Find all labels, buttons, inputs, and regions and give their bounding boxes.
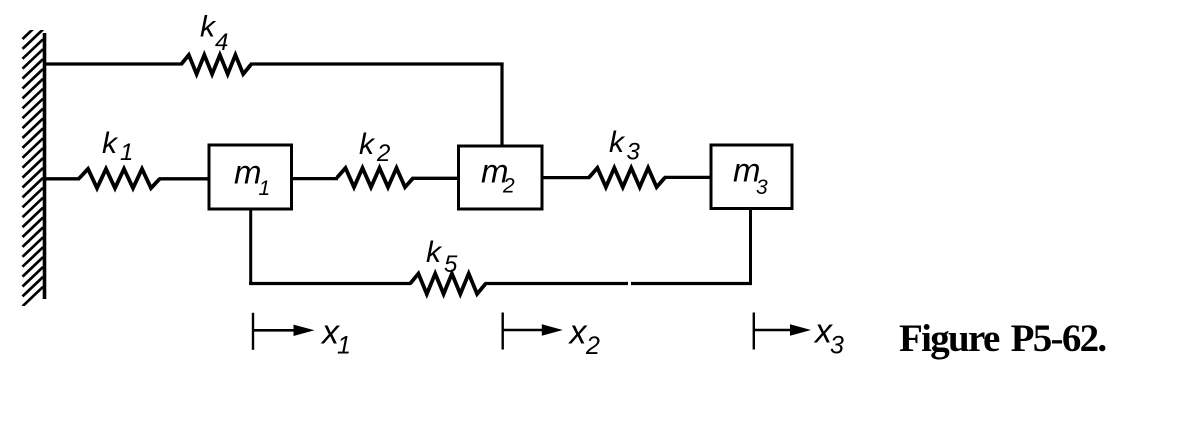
- svg-text:x: x: [568, 314, 588, 352]
- svg-text:4: 4: [215, 29, 228, 56]
- svg-text:2: 2: [585, 332, 600, 360]
- svg-text:Figure P5-62.: Figure P5-62.: [899, 317, 1106, 360]
- svg-text:2: 2: [502, 175, 515, 198]
- svg-text:3: 3: [627, 139, 641, 166]
- svg-text:k: k: [426, 236, 443, 269]
- svg-text:m: m: [234, 154, 262, 191]
- svg-text:1: 1: [337, 332, 351, 360]
- svg-text:2: 2: [376, 140, 390, 167]
- svg-text:k: k: [359, 128, 376, 161]
- svg-text:k: k: [609, 126, 626, 159]
- svg-text:3: 3: [830, 332, 844, 360]
- svg-text:5: 5: [444, 251, 458, 278]
- svg-text:1: 1: [120, 139, 133, 166]
- svg-text:1: 1: [259, 177, 271, 200]
- svg-text:k: k: [102, 127, 119, 160]
- svg-text:3: 3: [756, 176, 768, 199]
